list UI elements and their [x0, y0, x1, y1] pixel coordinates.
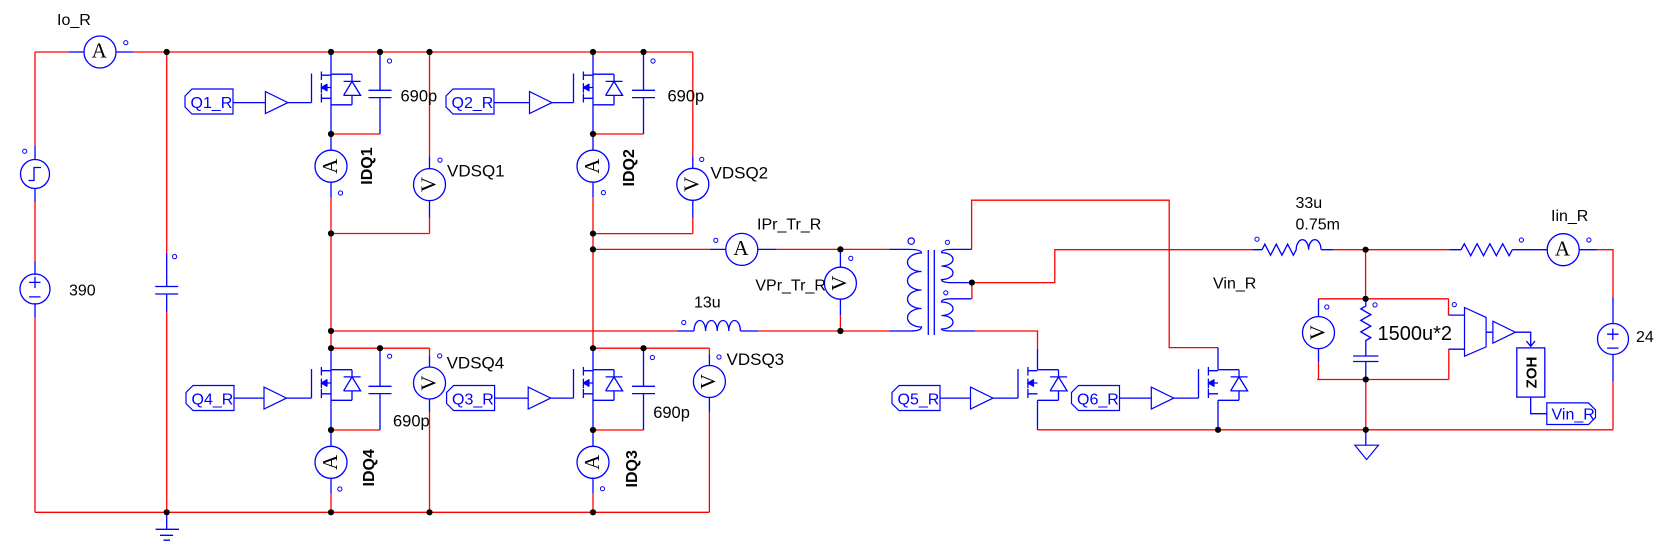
svg-text:Vin_R: Vin_R — [1552, 407, 1595, 424]
svg-text:VDSQ3: VDSQ3 — [727, 350, 785, 369]
svg-text:A: A — [318, 454, 342, 470]
svg-text:1500u*2: 1500u*2 — [1378, 323, 1453, 345]
svg-text:V: V — [416, 375, 440, 390]
svg-text:Iin_R: Iin_R — [1551, 208, 1588, 225]
svg-text:A: A — [580, 158, 604, 174]
svg-text:Io_R: Io_R — [57, 12, 91, 29]
svg-text:IDQ4: IDQ4 — [361, 449, 378, 486]
svg-text:Q1_R: Q1_R — [191, 95, 233, 112]
svg-text:24: 24 — [1636, 329, 1654, 346]
svg-text:A: A — [580, 454, 604, 470]
svg-text:V: V — [1305, 325, 1329, 340]
svg-text:0.75m: 0.75m — [1296, 217, 1340, 234]
svg-text:VPr_Tr_R: VPr_Tr_R — [755, 278, 826, 295]
svg-text:ZOH: ZOH — [1524, 357, 1541, 389]
svg-text:690p: 690p — [393, 413, 430, 431]
svg-text:V: V — [696, 374, 720, 389]
svg-text:Q4_R: Q4_R — [192, 392, 234, 409]
svg-text:V: V — [680, 177, 704, 192]
svg-text:A: A — [733, 236, 749, 260]
svg-text:13u: 13u — [694, 295, 721, 312]
svg-text:Vin_R: Vin_R — [1213, 276, 1256, 293]
svg-text:VDSQ2: VDSQ2 — [711, 164, 769, 183]
svg-text:IDQ1: IDQ1 — [359, 147, 376, 184]
svg-text:A: A — [1555, 236, 1571, 260]
svg-text:Q2_R: Q2_R — [452, 95, 494, 112]
svg-text:390: 390 — [69, 283, 96, 300]
svg-text:Q3_R: Q3_R — [452, 392, 494, 409]
svg-text:Q6_R: Q6_R — [1077, 392, 1119, 409]
svg-text:IPr_Tr_R: IPr_Tr_R — [757, 217, 821, 234]
svg-text:A: A — [318, 158, 342, 174]
svg-text:V: V — [827, 276, 851, 291]
svg-text:Q5_R: Q5_R — [898, 392, 940, 409]
svg-text:IDQ3: IDQ3 — [624, 450, 641, 487]
svg-text:V: V — [416, 177, 440, 192]
svg-text:690p: 690p — [668, 88, 705, 106]
svg-text:VDSQ1: VDSQ1 — [447, 162, 505, 181]
svg-text:IDQ2: IDQ2 — [621, 149, 638, 186]
svg-text:33u: 33u — [1296, 195, 1323, 212]
svg-text:690p: 690p — [653, 404, 690, 422]
svg-text:690p: 690p — [401, 88, 438, 106]
svg-text:A: A — [92, 39, 108, 63]
svg-text:VDSQ4: VDSQ4 — [447, 354, 505, 373]
